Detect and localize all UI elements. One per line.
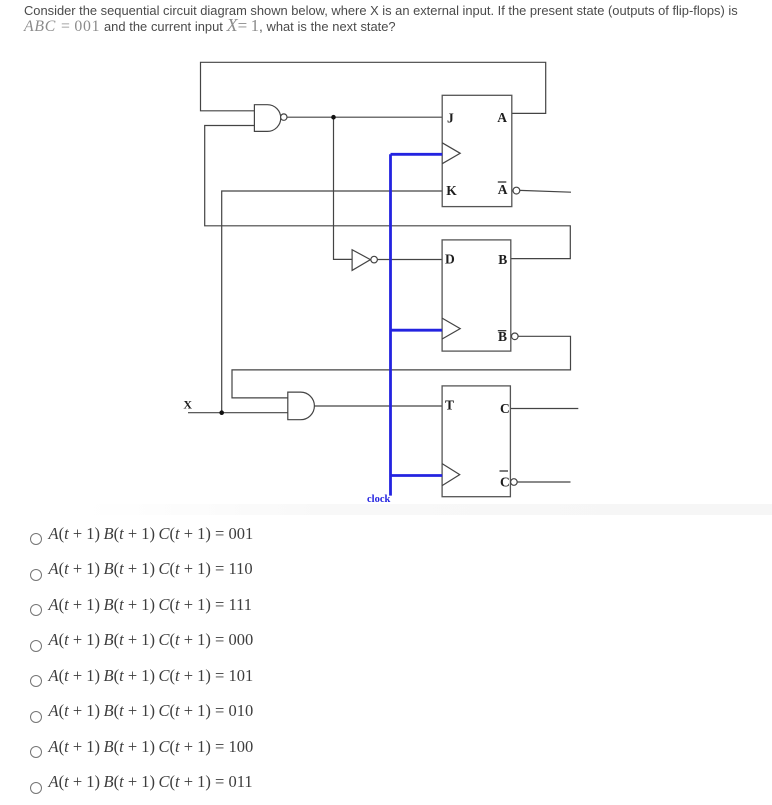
- svg-text:X: X: [183, 397, 192, 411]
- svg-text:T: T: [445, 398, 454, 413]
- svg-text:K: K: [446, 183, 457, 198]
- svg-text:D: D: [445, 252, 455, 267]
- svg-text:J: J: [447, 110, 454, 125]
- svg-text:C: C: [500, 401, 510, 416]
- svg-text:A: A: [497, 110, 507, 125]
- svg-text:A: A: [498, 182, 508, 197]
- svg-text:B: B: [498, 252, 507, 267]
- svg-text:B: B: [498, 329, 507, 344]
- svg-text:C: C: [500, 475, 510, 490]
